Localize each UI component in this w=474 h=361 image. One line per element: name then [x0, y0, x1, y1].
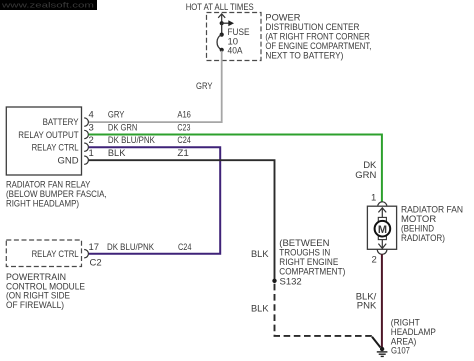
label RADIATOR FAN MOTOR caption — [401, 204, 463, 244]
watermark bar — [0, 0, 97, 10]
svg-text:C24: C24 — [178, 242, 192, 253]
svg-text:C2: C2 — [90, 258, 102, 269]
node junction dot B — [220, 33, 224, 37]
wire stub to hot feed with up arrow — [218, 14, 225, 23]
relay pin labels — [18, 117, 79, 166]
svg-text:GND: GND — [57, 155, 78, 166]
svg-text:OF FIREWALL): OF FIREWALL) — [6, 300, 64, 311]
svg-text:RIGHT HEADLAMP): RIGHT HEADLAMP) — [6, 199, 79, 210]
svg-text:GRY: GRY — [196, 81, 213, 92]
motor M1 box: radiator fan motor — [367, 206, 396, 249]
svg-text:S132: S132 — [280, 276, 302, 287]
label DK GRN vertical — [355, 160, 377, 181]
wire DK GRN relay pin3 to motor pin1 — [89, 135, 382, 202]
svg-text:A16: A16 — [177, 110, 191, 121]
pin 3 connector arc — [84, 130, 88, 138]
svg-text:BATTERY: BATTERY — [43, 117, 80, 128]
svg-text:RELAY CTRL: RELAY CTRL — [32, 249, 79, 260]
svg-text:40A: 40A — [228, 46, 244, 57]
svg-text:2: 2 — [89, 135, 94, 146]
wire GRY: fuse down, left to relay pin 4 — [89, 51, 222, 122]
wire — [221, 23, 223, 34]
svg-text:BLK: BLK — [251, 304, 269, 315]
svg-text:Z1: Z1 — [177, 148, 189, 159]
motor pin 1 connector arc — [378, 202, 387, 207]
label POWERTRAIN CONTROL MODULE caption — [6, 272, 85, 311]
pin numbers and wire labels row 2 — [89, 135, 191, 146]
svg-text:HOT AT ALL TIMES: HOT AT ALL TIMES — [186, 2, 254, 13]
svg-text:PNK: PNK — [357, 301, 377, 312]
svg-text:DK BLU/PNK: DK BLU/PNK — [107, 242, 155, 253]
svg-text:1: 1 — [89, 148, 94, 159]
pin 2 connector arc — [84, 143, 88, 151]
power distribution center dashed box — [207, 13, 262, 61]
svg-text:C24: C24 — [177, 135, 191, 146]
svg-text:DK BLU/PNK: DK BLU/PNK — [108, 135, 156, 146]
wire DK BLU/PNK relay pin2 to PCM pin17 — [89, 147, 221, 254]
svg-text:C23: C23 — [177, 122, 190, 133]
motor arrow up — [378, 208, 386, 218]
node junction dot C — [220, 48, 224, 52]
wire BLK relay pin1 to splice S132 — [89, 160, 275, 279]
svg-text:www.zealsoft.com: www.zealsoft.com — [0, 1, 94, 10]
svg-text:17: 17 — [89, 242, 100, 253]
node junction dot A — [220, 21, 224, 25]
svg-text:BLK: BLK — [251, 249, 269, 260]
pin numbers and wire labels row 3 — [89, 122, 191, 133]
label BLK/PNK — [356, 291, 377, 311]
pin numbers and wire labels row 1 — [89, 148, 189, 159]
svg-text:M: M — [378, 224, 387, 236]
pin 1 connector arc — [84, 156, 88, 164]
motor arrow down — [378, 240, 386, 249]
svg-text:2: 2 — [372, 254, 377, 265]
pin numbers and wire labels row 4 — [89, 110, 191, 121]
wire diagonal into ground — [372, 337, 381, 348]
splice S132 dot — [272, 279, 276, 283]
svg-text:GRN: GRN — [355, 170, 376, 181]
label (RIGHT HEADLAMP AREA) — [391, 317, 436, 347]
branch arrow to other circuits — [222, 20, 234, 26]
svg-text:RADIATOR): RADIATOR) — [401, 233, 445, 244]
PCM dashed box — [6, 240, 81, 267]
pin 17 connector arc — [84, 250, 88, 258]
svg-text:1: 1 — [371, 192, 376, 203]
svg-text:RELAY OUTPUT: RELAY OUTPUT — [18, 130, 78, 141]
svg-text:GRY: GRY — [108, 110, 125, 121]
motor brush rectangle — [378, 217, 386, 239]
label (BETWEEN TROUGHS...) — [279, 238, 345, 278]
svg-text:RELAY CTRL: RELAY CTRL — [32, 143, 79, 154]
pin 17 row labels — [89, 242, 192, 268]
svg-text:G107: G107 — [391, 345, 410, 356]
relay box: radiator fan relay U1 — [6, 107, 81, 175]
label POWER DISTRIBUTION CENTER — [265, 13, 371, 62]
wire BLK dashed to ground — [275, 284, 373, 336]
svg-text:BLK: BLK — [108, 148, 126, 159]
svg-text:NEXT TO BATTERY): NEXT TO BATTERY) — [265, 51, 343, 62]
fuse F 10 40A element — [217, 35, 222, 50]
label RADIATOR FAN RELAY caption — [6, 180, 107, 210]
wire BLK/PNK motor pin2 to ground — [381, 254, 383, 347]
svg-text:4: 4 — [89, 110, 94, 121]
pin 4 connector arc — [84, 118, 88, 126]
svg-text:3: 3 — [89, 122, 94, 133]
motor circle M — [375, 221, 391, 237]
label FUSE 10 40A — [228, 27, 250, 57]
motor pin 2 connector arc — [377, 250, 387, 255]
ground G107 — [377, 347, 388, 357]
svg-text:DK GRN: DK GRN — [108, 122, 138, 133]
svg-text:DK: DK — [363, 160, 377, 171]
